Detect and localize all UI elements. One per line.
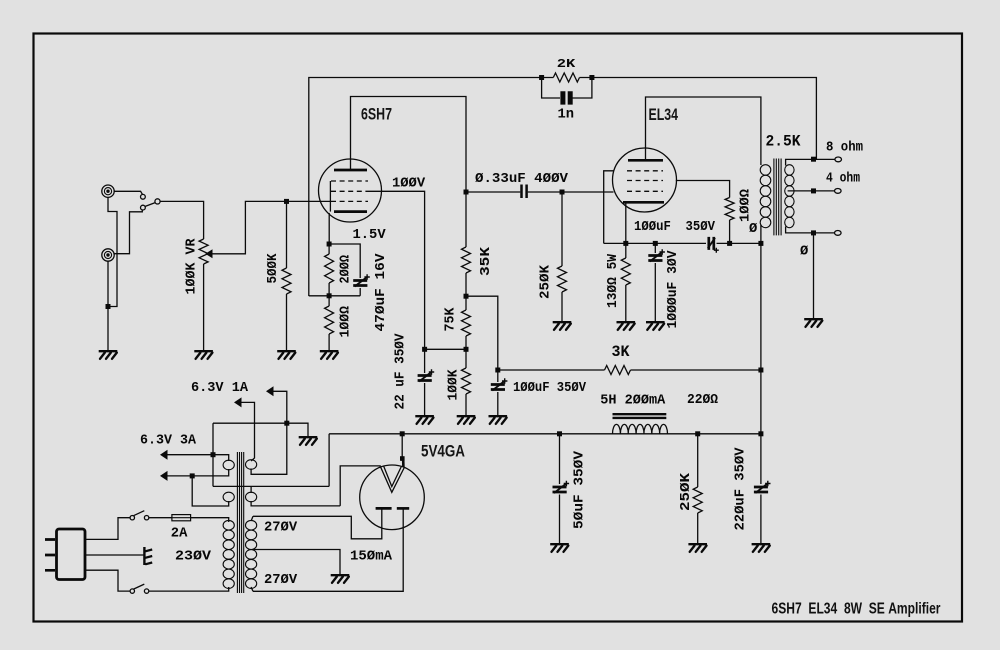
svg-text:Ø: Ø bbox=[800, 244, 808, 260]
svg-text:5H 2ØØmA: 5H 2ØØmA bbox=[600, 393, 666, 409]
svg-text:75K: 75K bbox=[444, 307, 459, 332]
ground 130 ohm bbox=[617, 322, 636, 330]
node 100uF-350V top bbox=[495, 368, 500, 373]
input RCA jack J1 (top) bbox=[102, 185, 114, 197]
node 1000uF top bbox=[653, 241, 658, 246]
wire feedback right to 8 ohm tap bbox=[580, 78, 817, 160]
wire return to lower loop bbox=[192, 476, 229, 506]
svg-text:6.3V 1A: 6.3V 1A bbox=[191, 381, 249, 396]
svg-text:22ØΩ: 22ØΩ bbox=[687, 392, 718, 408]
wire S1 pole to volume pot bbox=[160, 201, 204, 239]
svg-text:15ØmA: 15ØmA bbox=[350, 549, 393, 565]
EL34 grid g2 dashed bbox=[627, 180, 663, 182]
node 250K bleeder top bbox=[695, 431, 700, 436]
EL34 cathode rail bbox=[604, 242, 706, 244]
wire feedback return to cathode node bbox=[309, 295, 360, 297]
svg-text:1ØØuF 35ØV: 1ØØuF 35ØV bbox=[513, 380, 587, 396]
capacitor 1n feedback bbox=[542, 78, 560, 99]
wire bus down left bbox=[212, 423, 214, 486]
PT primary winding 230V bbox=[223, 520, 234, 588]
svg-text:1ØØØuF 3ØV: 1ØØØuF 3ØV bbox=[665, 250, 681, 329]
mains switch lower bbox=[130, 589, 134, 593]
svg-text:Ø.33uF 4ØØV: Ø.33uF 4ØØV bbox=[475, 171, 569, 187]
wire EL34 anode to OPT primary bbox=[646, 97, 761, 165]
svg-text:6SH7: 6SH7 bbox=[361, 105, 392, 124]
arrow 6.3V 3A hot bbox=[160, 450, 168, 460]
tube 5V4GA envelope bbox=[360, 465, 425, 530]
svg-text:5ØuF 35ØV: 5ØuF 35ØV bbox=[572, 450, 588, 529]
wire HT center tap bbox=[253, 550, 340, 575]
wire fuse to primary top bbox=[191, 518, 229, 522]
wire VR bottom to ground bbox=[203, 264, 205, 350]
EL34 grid g1 dashed bbox=[627, 190, 663, 192]
wire J1 to selector contact bbox=[114, 191, 142, 194]
tube EL34 envelope bbox=[613, 148, 677, 212]
wire filament left lead bbox=[340, 466, 381, 506]
svg-text:1.5V: 1.5V bbox=[353, 228, 387, 243]
wire VR wiper to 6SH7 grid bbox=[213, 201, 331, 253]
potentiometer 100K VR body bbox=[199, 239, 208, 264]
wire 6.3V1A hot to winding bbox=[242, 402, 255, 461]
wire right anode to HT bottom bbox=[253, 508, 403, 591]
svg-text:2ØØΩ: 2ØØΩ bbox=[338, 255, 354, 284]
chassis ground mains bbox=[143, 547, 145, 565]
wire 6.3V3A return bbox=[168, 469, 229, 476]
resistor 3K screen feed bbox=[631, 369, 761, 371]
resistor 100K screen divider lower bbox=[465, 349, 467, 368]
wire switch to primary bottom bbox=[149, 587, 229, 591]
capacitor 0.33uF 400V coupling bbox=[466, 191, 520, 193]
svg-text:1ØØK: 1ØØK bbox=[446, 369, 462, 401]
selector switch S1 contact b bbox=[141, 205, 146, 210]
wire J2 to selector contact bbox=[113, 210, 142, 254]
svg-text:27ØV: 27ØV bbox=[264, 520, 298, 536]
arrow 6.3V 3A return bbox=[160, 471, 168, 481]
svg-text:2.5K: 2.5K bbox=[766, 133, 801, 151]
wire left anode to HT top bbox=[253, 508, 382, 538]
choke 5H 200mA core bars bbox=[613, 414, 667, 418]
capacitor 22uF 350V screen bypass bbox=[424, 349, 426, 373]
svg-text:4 ohm: 4 ohm bbox=[826, 171, 860, 187]
fuse 2A bbox=[172, 515, 191, 521]
node 4 ohm bbox=[811, 188, 816, 193]
wire J1 ground jog bbox=[108, 197, 117, 306]
EL34 cathode bar bbox=[623, 201, 664, 204]
node feedback right bbox=[589, 75, 594, 80]
capacitor 470uF 16V bypass bbox=[329, 244, 360, 278]
ground 500K bbox=[277, 351, 296, 359]
node 6.3V3A top junction bbox=[211, 452, 216, 457]
node 100 ohm bottom bbox=[727, 241, 732, 246]
wire B+ jog to divider bbox=[466, 296, 498, 370]
svg-text:25ØK: 25ØK bbox=[538, 264, 554, 299]
selector switch S1 lever bbox=[145, 203, 155, 207]
EL34 anode bar bbox=[628, 159, 663, 162]
node 35K/75K junction bbox=[464, 294, 469, 299]
svg-text:22ØuF 35ØV: 22ØuF 35ØV bbox=[733, 447, 749, 531]
terminal common bbox=[835, 231, 842, 236]
PT rectifier filament winding loop bbox=[246, 492, 257, 502]
ground 50uF bbox=[550, 544, 569, 552]
node heater bus junction bbox=[284, 421, 289, 426]
svg-text:8 ohm: 8 ohm bbox=[826, 140, 863, 156]
capacitor 1000uF 30V cathode bypass bbox=[654, 243, 656, 253]
resistor 200 ohm cathode bias bbox=[328, 244, 330, 254]
5V4GA anode right bar bbox=[397, 507, 409, 510]
node cathode top bbox=[327, 242, 332, 247]
ground VR bbox=[194, 351, 213, 359]
svg-text:6.3V 3A: 6.3V 3A bbox=[140, 434, 197, 449]
wire 6SH7 anode up and to coupling node bbox=[351, 97, 467, 193]
selector switch S1 contact a bbox=[141, 194, 146, 199]
wire 6.3V3A hot to winding bbox=[168, 455, 229, 461]
tube 6SH7 envelope bbox=[319, 159, 382, 222]
wire 6.3V1A return to bus bbox=[251, 391, 287, 474]
svg-text:1ØØK VR: 1ØØK VR bbox=[184, 238, 200, 295]
wire J2 ground down bbox=[107, 261, 109, 350]
svg-text:1ØØV: 1ØØV bbox=[392, 176, 426, 192]
svg-text:3K: 3K bbox=[612, 343, 630, 361]
resistor 35K plate load bbox=[465, 192, 467, 247]
ground input jacks bbox=[99, 351, 118, 359]
capacitor 50uF 350V reservoir bbox=[559, 434, 561, 484]
node common tap bbox=[811, 230, 816, 235]
wire EL34 cathode down bbox=[625, 203, 627, 243]
potentiometer 100K VR wiper arrow bbox=[205, 249, 212, 258]
selector switch S1 pole bbox=[155, 199, 160, 204]
capacitor 220uF 350V filter bbox=[760, 434, 762, 484]
wire bus to rectifier filament winding top bbox=[213, 485, 329, 487]
wire plug earth bbox=[86, 554, 143, 556]
wire plug live to switch bbox=[86, 518, 130, 540]
wire 8 ohm tap bbox=[786, 159, 836, 165]
node 8 ohm bbox=[811, 157, 816, 162]
node B+ 3K junction bbox=[758, 368, 763, 373]
ground 250K bleeder bbox=[688, 544, 707, 552]
svg-text:35K: 35K bbox=[479, 246, 494, 276]
svg-text:47ØuF 16V: 47ØuF 16V bbox=[373, 253, 389, 332]
ground 1000uF bbox=[646, 322, 665, 330]
ground 100K bbox=[457, 416, 476, 424]
wire EL34 screen to 100 ohm bbox=[676, 181, 730, 198]
wire secondary common tap bbox=[786, 227, 835, 233]
node input ground junction bbox=[106, 304, 111, 309]
wire B+ rail from rectifier bbox=[329, 433, 761, 435]
capacitor 100uF 350V ultrapath bbox=[708, 237, 719, 253]
wire OPT primary bottom lead bbox=[760, 225, 762, 243]
wire plug neutral to switch bbox=[86, 570, 130, 591]
wire B+ takeoff from filament winding bbox=[328, 434, 330, 487]
EL34 grid g3 dashed bbox=[627, 170, 663, 172]
heater ground bus bbox=[213, 423, 308, 436]
5V4GA filament V bbox=[381, 467, 405, 493]
PT heater winding 6.3V1A loop bbox=[246, 460, 257, 470]
input RCA jack J2 (bottom) bbox=[102, 249, 114, 261]
wire filament winding bottom bbox=[251, 501, 340, 506]
ground 100 ohm bbox=[320, 351, 339, 359]
PT heater winding 6.3V3A upper loop bbox=[223, 460, 234, 470]
node filament lead bbox=[400, 456, 405, 461]
node 6SH7 anode coupling bbox=[464, 190, 469, 195]
svg-text:1ØØΩ: 1ØØΩ bbox=[738, 189, 754, 222]
resistor 100 ohm feedback leg bbox=[328, 296, 330, 306]
ground heater bus bbox=[299, 437, 318, 445]
svg-text:EL34: EL34 bbox=[649, 105, 679, 124]
resistor 100 ohm screen bbox=[725, 198, 734, 221]
6SH7 cathode bar bbox=[334, 210, 367, 213]
mains plug bbox=[57, 529, 86, 580]
ground HT center tap bbox=[331, 575, 350, 583]
wire 6SH7 cathode down bbox=[328, 213, 330, 244]
arrow 6.3V 1A return bbox=[266, 386, 274, 396]
node 6.3V3A return junction bbox=[190, 473, 195, 478]
wire tap to 22uF node bbox=[425, 348, 466, 350]
ground 220uF bbox=[752, 544, 771, 552]
OPT secondary winding bbox=[785, 165, 794, 228]
terminal 4 ohm bbox=[835, 189, 842, 194]
svg-text:1n: 1n bbox=[558, 108, 575, 123]
node B+ rail rectifier bbox=[400, 431, 405, 436]
ground 250K grid bbox=[553, 322, 572, 330]
svg-text:Ø: Ø bbox=[749, 221, 757, 237]
wire common to ground bbox=[813, 233, 815, 318]
wire 4 ohm tap bbox=[788, 190, 835, 192]
wire switch to fuse bbox=[149, 517, 172, 519]
wire B+ vertical main bbox=[760, 243, 762, 433]
svg-text:22 uF 35ØV: 22 uF 35ØV bbox=[393, 333, 409, 410]
6SH7 internal g3-cathode tie bbox=[329, 181, 331, 212]
5V4GA anode left bar bbox=[376, 507, 392, 510]
resistor 500K grid leak bbox=[286, 201, 288, 268]
OPT primary winding bbox=[760, 165, 771, 228]
node EL34 grid / 250K junction bbox=[560, 190, 565, 195]
wire filament right to B+ rail bbox=[401, 434, 403, 461]
PT HT secondary winding 270-0-270 bbox=[246, 520, 257, 588]
svg-text:25ØK: 25ØK bbox=[678, 472, 694, 511]
wire feedback left drop bbox=[309, 78, 554, 297]
svg-text:5ØØK: 5ØØK bbox=[265, 253, 281, 284]
node B+ primary rail bbox=[758, 241, 763, 246]
ground 100uF decoupling bbox=[489, 416, 508, 424]
choke 5H 200mA winding bbox=[613, 424, 668, 433]
ground 22uF bbox=[415, 416, 434, 424]
6SH7 anode bar bbox=[334, 169, 367, 172]
PT heater winding 6.3V3A lower loop bbox=[223, 492, 234, 502]
6SH7 grid g1 dashed bbox=[331, 200, 368, 202]
terminal 8 ohm bbox=[835, 157, 842, 162]
resistor 75K screen divider upper bbox=[465, 296, 467, 310]
svg-text:2A: 2A bbox=[171, 527, 188, 542]
mains switch upper bbox=[130, 516, 134, 520]
node cathode lead bbox=[623, 241, 628, 246]
resistor 250K grid leak EL34 bbox=[561, 192, 563, 266]
wire HT bottom lead bbox=[251, 587, 253, 591]
arrow 6.3V 1A hot bbox=[234, 397, 242, 407]
svg-text:2K: 2K bbox=[557, 57, 576, 71]
6SH7 grid g2 dashed bbox=[331, 190, 368, 192]
svg-text:27ØV: 27ØV bbox=[264, 572, 298, 588]
node 22uF top bbox=[422, 347, 427, 352]
svg-text:5V4GA: 5V4GA bbox=[421, 442, 465, 461]
ground OPT common bbox=[804, 319, 823, 327]
svg-text:6SH7 EL34 8W SE Amplifier: 6SH7 EL34 8W SE Amplifier bbox=[772, 600, 941, 617]
svg-text:1ØØΩ: 1ØØΩ bbox=[338, 306, 354, 338]
node 50uF top bbox=[557, 431, 562, 436]
node screen divider tap bbox=[464, 347, 469, 352]
wire HT top 270V to left anode bbox=[251, 516, 253, 521]
wire EL34 g3 to cathode rail bbox=[604, 171, 614, 244]
OPT core bbox=[774, 159, 781, 236]
svg-text:1ØØuF 35ØV: 1ØØuF 35ØV bbox=[634, 219, 716, 235]
resistor 130 ohm 5W cathode bias bbox=[625, 243, 627, 258]
svg-text:13ØΩ 5W: 13ØΩ 5W bbox=[605, 253, 621, 308]
6SH7 grid g3 dashed bbox=[331, 180, 368, 182]
node 220uF top bbox=[758, 431, 763, 436]
power transformer core bbox=[237, 452, 243, 593]
capacitor 100uF 350V decoupling bbox=[497, 370, 499, 382]
svg-text:23ØV: 23ØV bbox=[175, 549, 212, 565]
node feedback left bbox=[539, 75, 544, 80]
resistor 2K feedback bbox=[553, 73, 579, 82]
node cathode bottom / feedback junction bbox=[327, 293, 332, 298]
node grid / 500K junction bbox=[284, 199, 289, 204]
resistor 250K bleeder bbox=[697, 434, 699, 487]
wire 6SH7 screen to 100V node bbox=[368, 191, 425, 349]
